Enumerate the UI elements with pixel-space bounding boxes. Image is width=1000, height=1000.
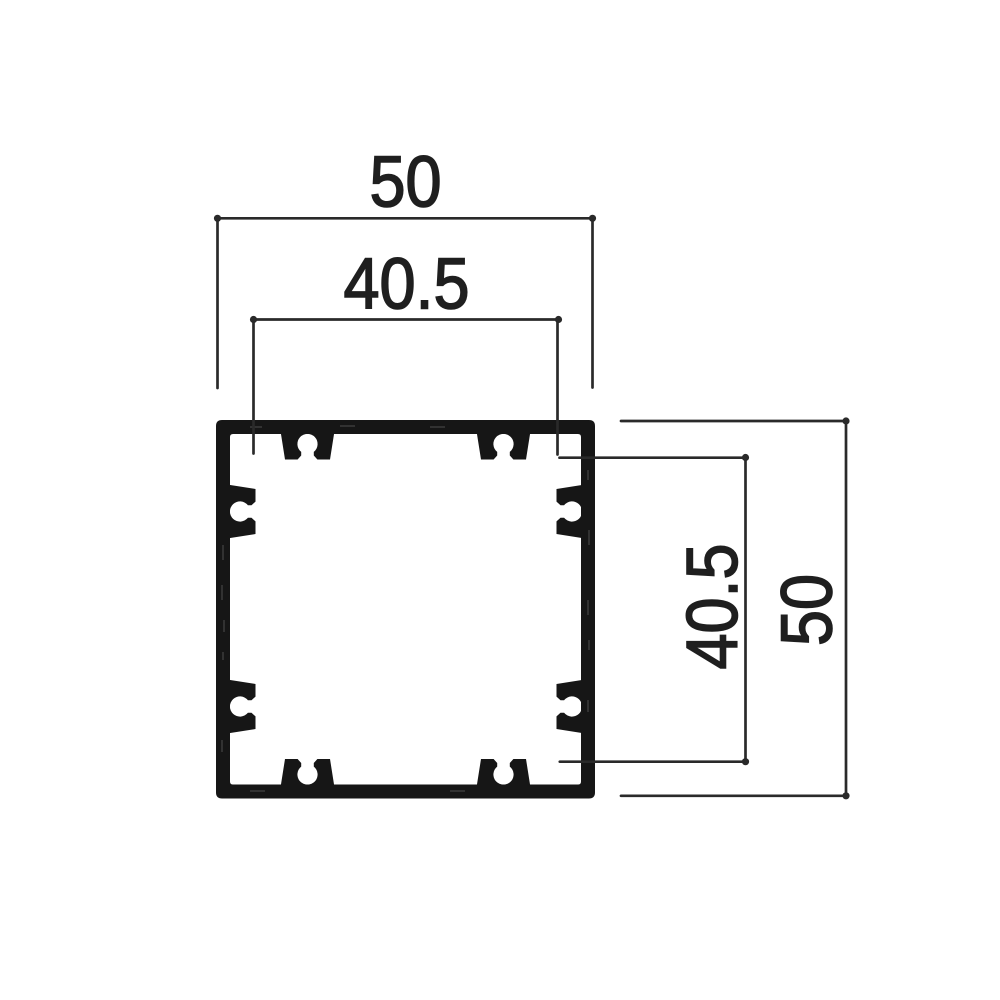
screw boss right-upper xyxy=(557,485,586,539)
terminator dot right 50 top xyxy=(842,417,849,424)
extension line left for top 50 xyxy=(216,218,219,388)
dimension line top 40.5 xyxy=(254,318,559,321)
dimension line right 50 xyxy=(845,421,848,796)
profile body (50x50 square tube wall) xyxy=(216,420,595,799)
extension line right for top 50 xyxy=(591,218,594,387)
screw boss left-lower xyxy=(227,680,256,734)
extension line top for right 50 xyxy=(621,420,848,423)
screw boss left-upper xyxy=(227,485,256,539)
extension line right for top 40.5 xyxy=(556,320,559,455)
svg-text:40.5: 40.5 xyxy=(343,243,469,324)
terminator dot top 50 right xyxy=(589,215,596,222)
screw boss bottom-right xyxy=(477,759,531,788)
screw boss top-left xyxy=(281,431,335,460)
screw boss bottom-left xyxy=(281,759,335,788)
terminator dot right 40.5 top xyxy=(742,454,749,461)
terminator dot top 40.5 left xyxy=(250,316,257,323)
terminator dot right 40.5 bottom xyxy=(742,758,749,765)
extension line bottom for right 40.5 xyxy=(560,760,747,763)
hatch glint streaks on profile walls xyxy=(222,426,589,791)
terminator dot top 50 left xyxy=(214,215,221,222)
svg-text:50: 50 xyxy=(766,574,847,646)
terminator dot right 50 bottom xyxy=(842,792,849,799)
extension line bottom for right 50 xyxy=(621,794,848,797)
screw boss right-lower xyxy=(557,680,586,734)
dimension line right 40.5 xyxy=(744,458,747,762)
extension line left for top 40.5 xyxy=(252,320,255,454)
terminator dot top 40.5 right xyxy=(555,316,562,323)
extension line top for right 40.5 xyxy=(560,456,748,459)
svg-text:40.5: 40.5 xyxy=(672,543,753,669)
screw boss top-right xyxy=(477,431,531,460)
svg-text:50: 50 xyxy=(369,141,441,222)
dimension line top 50 xyxy=(218,217,593,220)
